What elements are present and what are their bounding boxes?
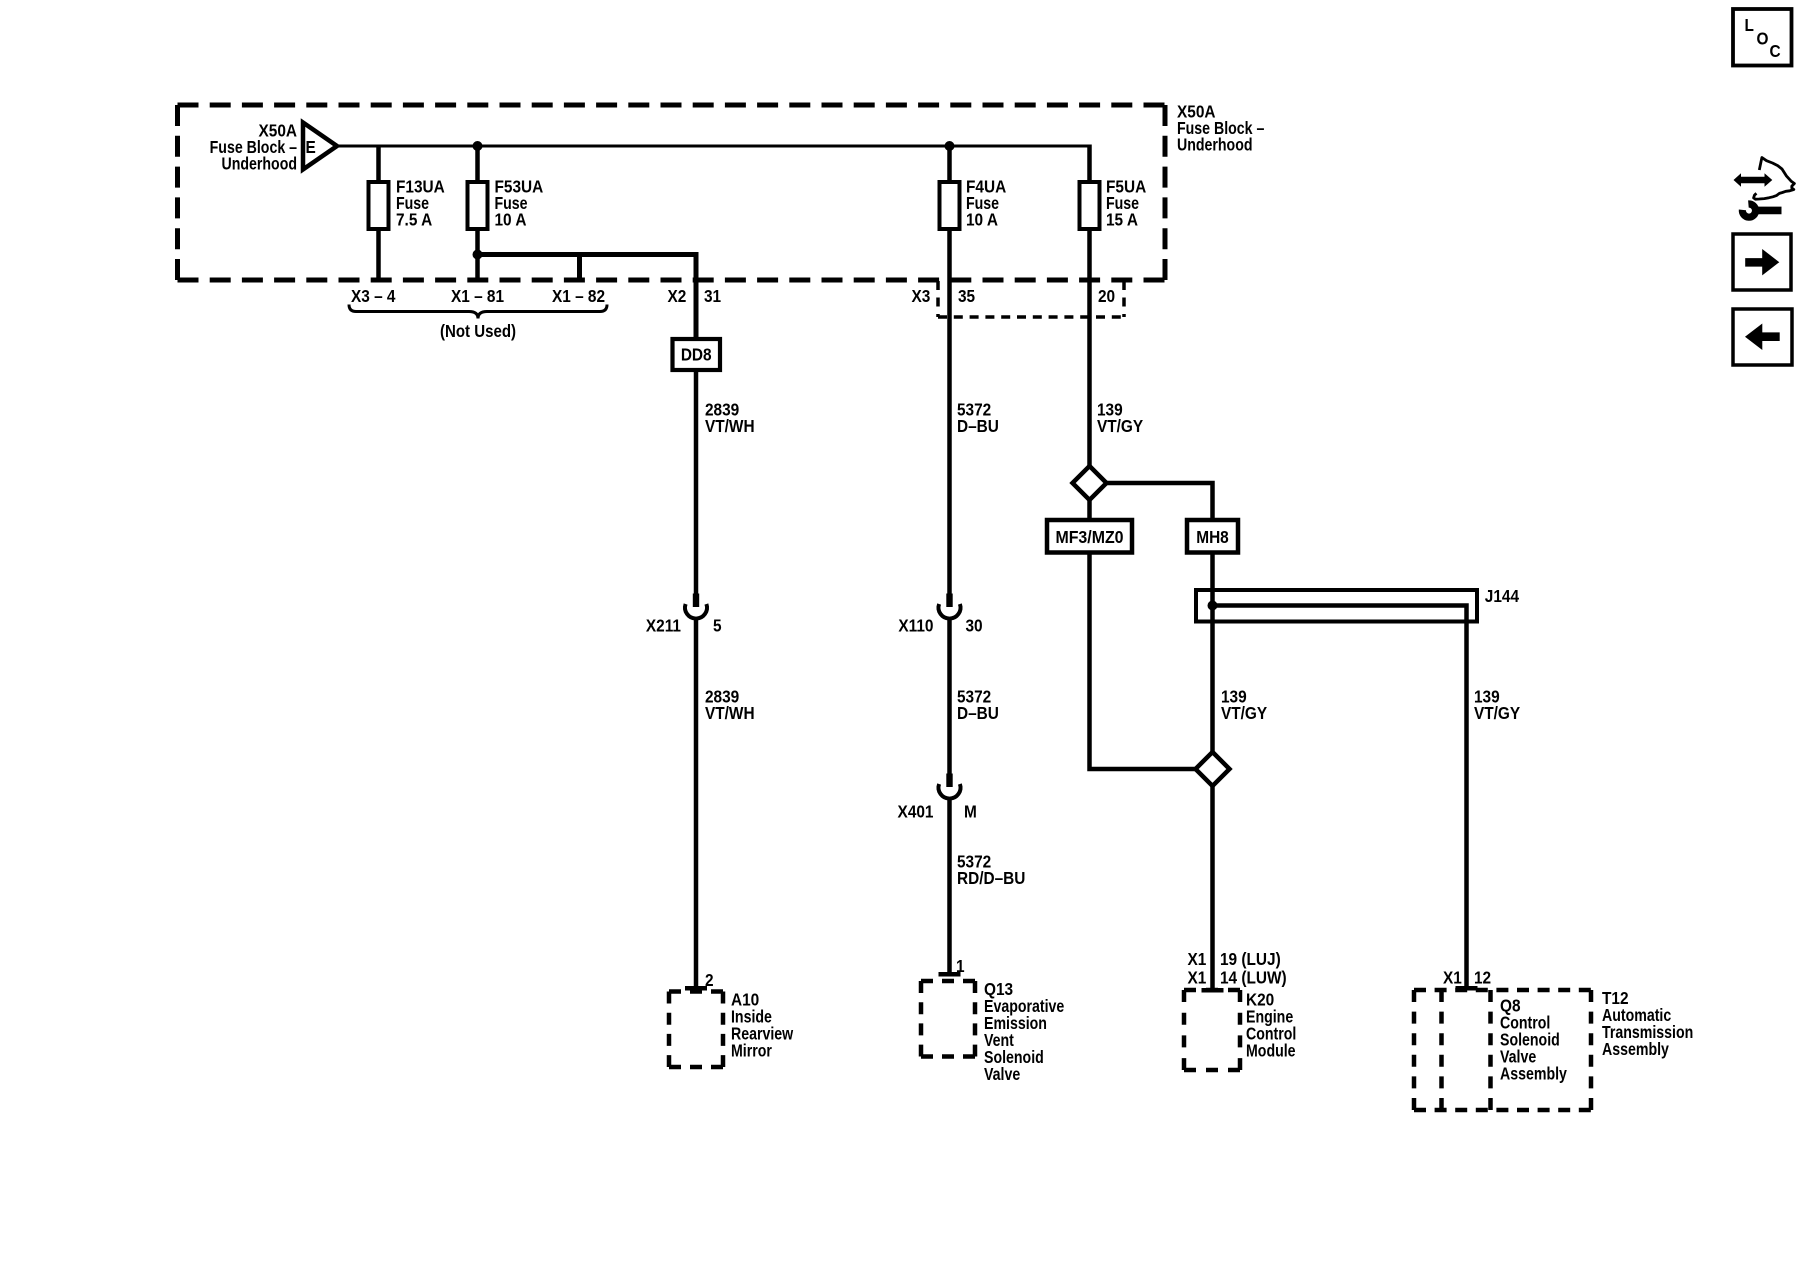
node junction dot jumper: [473, 250, 483, 260]
svg-text:J144: J144: [1485, 587, 1520, 606]
svg-text:D–BU: D–BU: [957, 417, 999, 436]
branch wire diamond S1 to MH8: [1107, 483, 1213, 521]
svg-text:Module: Module: [1246, 1042, 1296, 1061]
svg-text:D–BU: D–BU: [957, 704, 999, 723]
wire 2839 VT/WH upper: [694, 370, 699, 595]
svg-text:Underhood: Underhood: [1177, 136, 1253, 155]
svg-text:C: C: [1770, 42, 1781, 61]
svg-text:VT/GY: VT/GY: [1097, 417, 1143, 436]
connector sub-box X3/35-20 dashed: [936, 281, 940, 317]
fuse F53UA: [468, 178, 544, 230]
svg-text:Solenoid: Solenoid: [984, 1049, 1044, 1068]
svg-text:X1: X1: [1188, 950, 1207, 969]
svg-text:X401: X401: [898, 803, 934, 822]
Q8 pin labels X1 12: [1443, 969, 1491, 988]
wire F53UA vertical: [475, 146, 480, 280]
splice pack J144: [1196, 587, 1520, 621]
svg-text:X1 – 81: X1 – 81: [451, 287, 504, 306]
svg-text:Evaporative: Evaporative: [984, 998, 1064, 1017]
terminal bar Q13: [939, 972, 961, 977]
wire F4UA vertical: [947, 146, 952, 595]
svg-text:19 (LUJ): 19 (LUJ): [1220, 950, 1281, 969]
wire to MF3/MZ0: [1087, 500, 1092, 521]
splice diamond S2: [1196, 752, 1230, 786]
svg-text:VT/WH: VT/WH: [705, 704, 755, 723]
svg-text:MF3/MZ0: MF3/MZ0: [1055, 527, 1123, 547]
wire inside J144 to Q8: [1213, 606, 1467, 987]
node junction dot F4UA: [945, 141, 955, 151]
terminal bar Q8: [1456, 986, 1478, 991]
wire F13UA vertical: [376, 146, 381, 280]
wire diamond S2 to K20: [1210, 786, 1215, 989]
fuse F5UA: [1080, 178, 1147, 230]
wire F5UA vertical: [1087, 145, 1092, 469]
svg-text:Emission: Emission: [984, 1015, 1047, 1034]
wire 5372 D-BU lower: [947, 619, 952, 775]
svg-text:(Not Used): (Not Used): [440, 322, 516, 341]
svg-text:Valve: Valve: [1500, 1048, 1536, 1067]
fuse F13UA: [369, 178, 445, 230]
back arrow icon: [1733, 309, 1792, 365]
svg-text:14 (LUW): 14 (LUW): [1220, 969, 1287, 988]
nav icon outline: [1754, 158, 1795, 200]
splice diamond S1: [1073, 466, 1107, 500]
svg-text:L: L: [1745, 16, 1754, 35]
power feed triangle E: [303, 123, 337, 170]
svg-text:DD8: DD8: [681, 346, 712, 365]
connector X110 pin 30: [898, 594, 982, 636]
svg-text:Mirror: Mirror: [731, 1042, 772, 1061]
svg-text:MH8: MH8: [1196, 528, 1228, 547]
fuse F4UA: [940, 178, 1007, 230]
svg-text:X3: X3: [912, 287, 931, 306]
svg-text:E: E: [306, 138, 316, 157]
svg-text:15 A: 15 A: [1106, 211, 1138, 230]
svg-text:X1: X1: [1188, 969, 1207, 988]
svg-text:Q13: Q13: [984, 980, 1013, 999]
A10 Inside Rearview Mirror box: [669, 991, 794, 1067]
svg-text:5: 5: [713, 617, 722, 636]
splice DD8: [673, 339, 721, 370]
wire 5372 RD/D-BU: [947, 799, 952, 973]
svg-text:Transmission: Transmission: [1602, 1024, 1693, 1043]
Q8 Control Solenoid Valve Assembly box: [1442, 990, 1568, 1110]
svg-text:X1 – 82: X1 – 82: [552, 287, 605, 306]
pin labels along fuse block bottom: [351, 287, 1115, 306]
svg-text:12: 12: [1474, 969, 1491, 988]
option box MF3/MZ0: [1047, 520, 1132, 553]
svg-text:X211: X211: [646, 617, 681, 636]
loc icon: [1733, 9, 1792, 66]
svg-text:Assembly: Assembly: [1602, 1041, 1669, 1060]
connector X211 pin 5: [646, 594, 722, 636]
connector X401 pin M: [898, 774, 977, 822]
svg-text:35: 35: [958, 287, 975, 306]
terminal bar K20: [1202, 988, 1224, 993]
node junction dot F53UA: [473, 141, 483, 151]
svg-text:VT/GY: VT/GY: [1474, 704, 1520, 723]
wire from MF3/MZ0 down to diamond S2: [1090, 553, 1198, 770]
svg-text:Control: Control: [1500, 1014, 1550, 1033]
svg-text:Control: Control: [1246, 1025, 1296, 1044]
wire stub X1-82: [577, 252, 582, 281]
T12 Automatic Transmission Assembly box: [1414, 989, 1693, 1110]
svg-text:Assembly: Assembly: [1500, 1065, 1567, 1084]
brace (Not Used): [349, 305, 607, 319]
Q13 Evaporative Emission Vent Solenoid Valve box: [921, 980, 1064, 1084]
svg-text:A10: A10: [731, 991, 759, 1010]
svg-text:X110: X110: [898, 617, 933, 636]
K20 pin labels: [1188, 950, 1287, 988]
svg-text:T12: T12: [1602, 989, 1629, 1008]
nav icon wrench: [1742, 204, 1755, 217]
svg-text:RD/D–BU: RD/D–BU: [957, 869, 1025, 888]
svg-text:10 A: 10 A: [495, 211, 527, 230]
wire MH8 through J144 to diamond S2: [1210, 553, 1215, 754]
label X50A Fuse Block - Underhood (left of triangle): [210, 122, 297, 174]
svg-text:30: 30: [966, 617, 983, 636]
wire 2839 VT/WH lower: [694, 619, 699, 987]
svg-text:O: O: [1757, 29, 1769, 48]
K20 Engine Control Module box: [1184, 990, 1296, 1070]
fuse block X50A dashed box: [178, 103, 1166, 108]
label X50A Fuse Block - Underhood (top right of box): [1177, 103, 1264, 155]
svg-text:M: M: [964, 803, 977, 822]
svg-text:Valve: Valve: [984, 1066, 1020, 1085]
svg-text:X3 – 4: X3 – 4: [351, 287, 396, 306]
svg-text:10 A: 10 A: [966, 211, 998, 230]
svg-text:K20: K20: [1246, 991, 1274, 1010]
forward arrow icon: [1733, 234, 1791, 290]
svg-text:20: 20: [1098, 287, 1115, 306]
option box MH8: [1187, 520, 1238, 553]
svg-text:7.5 A: 7.5 A: [396, 211, 432, 230]
svg-text:Automatic: Automatic: [1602, 1007, 1671, 1026]
svg-text:31: 31: [704, 287, 721, 306]
svg-text:X1: X1: [1443, 969, 1462, 988]
svg-text:Q8: Q8: [1500, 997, 1521, 1016]
svg-text:Underhood: Underhood: [221, 155, 297, 174]
svg-text:Inside: Inside: [731, 1008, 772, 1027]
svg-text:VT/GY: VT/GY: [1221, 704, 1267, 723]
svg-text:Engine: Engine: [1246, 1008, 1293, 1027]
svg-text:X2: X2: [668, 287, 687, 306]
svg-text:Solenoid: Solenoid: [1500, 1031, 1560, 1050]
svg-text:VT/WH: VT/WH: [705, 417, 755, 436]
svg-text:Rearview: Rearview: [731, 1025, 794, 1044]
svg-text:Vent: Vent: [984, 1032, 1015, 1051]
terminal bar A10: [685, 986, 707, 991]
bus wire from triangle: [336, 145, 1092, 148]
nav icon double arrow: [1734, 173, 1773, 186]
wire jumper from F53UA to X2-31: [478, 255, 697, 342]
node junction dot J144: [1208, 601, 1218, 611]
